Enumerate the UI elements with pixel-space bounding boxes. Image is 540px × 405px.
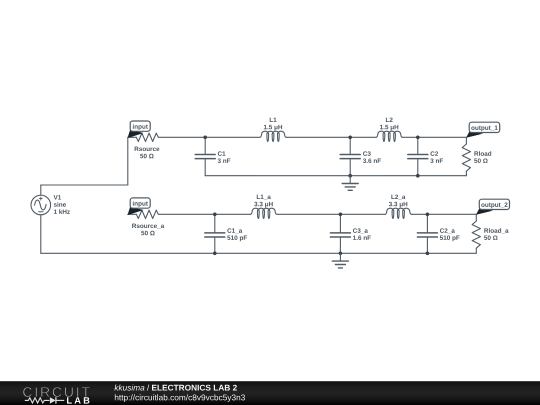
node C3 bottom junction — [348, 174, 352, 178]
wire input node down to V1 row — [127, 137, 129, 185]
wire Rsource to L1 (top main) — [158, 136, 260, 138]
label Rsource 50 ohm — [135, 147, 160, 159]
capacitor C3 — [340, 137, 360, 175]
node C3_a top junction — [339, 213, 343, 217]
inductor L1 — [260, 131, 286, 141]
logo resistor squiggle — [25, 398, 50, 403]
flag input (bottom) — [128, 198, 151, 215]
label C1 3nF — [218, 151, 231, 163]
resistor Rload — [462, 137, 470, 175]
capacitor C1 — [195, 137, 215, 175]
wire L1 to L2 — [286, 136, 376, 138]
label C2 3nF — [430, 151, 443, 163]
logo CIRCUIT wordmark — [23, 387, 90, 397]
node C2 top junction — [416, 136, 420, 140]
node C2_a bottom junction — [426, 252, 430, 256]
footer title line: kkusima / ELECTRONICS LAB 2 — [114, 384, 236, 390]
wire L2_a to output_2 node — [411, 213, 476, 215]
node C3 top junction — [348, 136, 352, 140]
capacitor C3_a — [330, 214, 350, 253]
logo diode — [50, 397, 64, 403]
label C3_a 1.6nF — [353, 228, 371, 240]
logo LAB wordmark — [67, 397, 89, 403]
footer url line — [115, 394, 245, 402]
resistor Rsource — [136, 133, 158, 141]
node C1_a top junction — [213, 213, 217, 217]
node C1 top junction — [203, 136, 207, 140]
inductor L2 — [376, 131, 402, 141]
voltage source V1 — [31, 185, 51, 253]
label L2 1.5uH — [380, 118, 398, 131]
label V1 sine 1kHz — [54, 195, 70, 214]
node C2_a top junction — [426, 213, 430, 217]
node C3_a bottom junction — [339, 252, 343, 256]
label Rsource_a 50 ohm — [132, 224, 164, 236]
wire bottom rail (top circuit) — [205, 175, 466, 177]
wire to V1 top — [41, 184, 128, 186]
inductor L2_a — [385, 208, 411, 218]
resistor Rload_a — [472, 214, 480, 253]
label C2_a 510pF — [440, 228, 460, 241]
flag output_2 — [476, 199, 510, 215]
label Rload 50 ohm — [474, 151, 491, 163]
flag input (top) — [128, 121, 151, 138]
capacitor C2 — [408, 137, 428, 175]
label C1_a 510pF — [227, 228, 247, 241]
label C3 3.6nF — [363, 151, 381, 163]
wire bottom rail (bottom circuit) — [41, 252, 477, 254]
footer bar — [0, 381, 540, 405]
label L1_a 3.3uH — [254, 195, 272, 208]
wire L1_a to L2_a — [277, 213, 386, 215]
node C1_a bottom junction — [213, 252, 217, 256]
wire input node to Rsource (top) — [128, 136, 137, 138]
wire Rsource_a to L1_a — [158, 213, 250, 215]
inductor L1_a — [251, 208, 277, 218]
ground (top circuit) — [342, 176, 358, 191]
ground (bottom circuit) — [332, 253, 348, 268]
label L1 1.5uH — [264, 118, 282, 131]
resistor Rsource_a — [136, 210, 158, 218]
flag output_1 — [466, 122, 500, 138]
label Rload_a 50 ohm — [484, 228, 509, 240]
capacitor C1_a — [205, 214, 225, 253]
capacitor C2_a — [417, 214, 437, 253]
node C2 bottom junction — [416, 174, 420, 178]
wire L2 to output_1 node — [402, 136, 466, 138]
wire input node to Rsource_a — [128, 213, 137, 215]
label L2_a 3.3uH — [389, 195, 407, 208]
